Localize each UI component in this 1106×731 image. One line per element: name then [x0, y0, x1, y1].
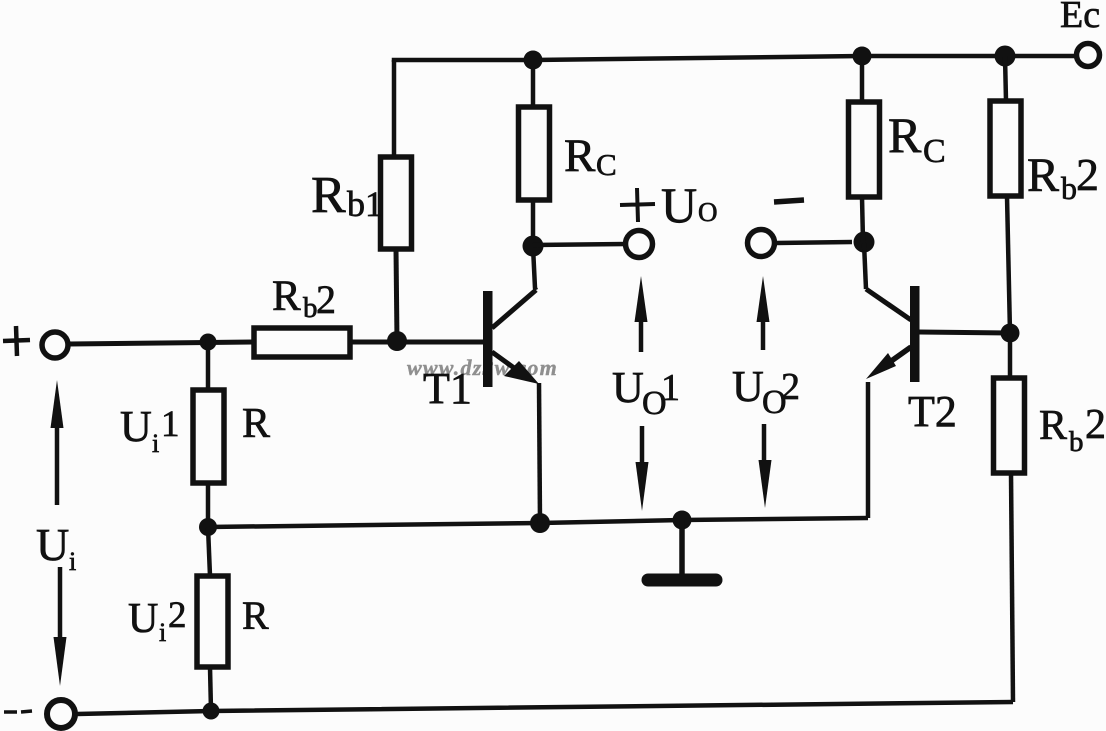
wire R lower bottom lead — [210, 667, 211, 711]
wire R_b2 to T1 base — [350, 340, 484, 345]
label plus Uo — [620, 188, 655, 222]
svg-text:2: 2 — [781, 366, 800, 408]
svg-text:C: C — [923, 133, 946, 170]
node input junction — [200, 334, 217, 351]
resistor R_C right — [849, 102, 880, 197]
input terminal plus — [42, 332, 68, 358]
resistor R upper — [193, 390, 224, 483]
wire R_b2 right-top bottom lead — [1007, 196, 1010, 333]
node bottom rail junction — [203, 703, 220, 720]
arrow Uo1 up — [639, 315, 644, 352]
svg-text:C: C — [596, 147, 617, 182]
wire T2 base — [919, 332, 1010, 333]
transistor T2 — [910, 286, 920, 382]
svg-text:i: i — [159, 618, 166, 647]
arrow Ui up — [55, 425, 60, 505]
node base T1 junction — [387, 331, 407, 351]
wire to output plus terminal — [533, 244, 626, 245]
wire R_C left top lead — [531, 60, 536, 107]
wire R_b2 right-top top lead — [1005, 56, 1006, 101]
arrow Uo2 up — [761, 315, 766, 350]
svg-text:2: 2 — [168, 595, 187, 636]
svg-text:2: 2 — [1076, 149, 1099, 200]
input minus dashes — [4, 711, 32, 712]
wire R upper bottom lead — [206, 483, 211, 527]
output terminal plus Uo — [626, 231, 653, 258]
svg-text:i: i — [152, 429, 159, 458]
node T2 base junction — [1001, 324, 1020, 343]
wire T2 emitter lead — [866, 382, 871, 518]
svg-text:b: b — [1061, 170, 1077, 206]
wire R_C right top lead — [860, 56, 865, 102]
wire input junction to R upper — [206, 342, 211, 390]
svg-text:R: R — [564, 130, 596, 182]
svg-text:U: U — [120, 402, 152, 451]
output terminal minus Uo — [748, 230, 775, 257]
wire T2 collector lead — [864, 243, 866, 289]
node top rail junction C — [995, 46, 1016, 67]
svg-text:U: U — [128, 596, 158, 642]
svg-text:Ec: Ec — [1060, 0, 1100, 36]
svg-text:R: R — [272, 273, 301, 320]
power terminal Ec — [1077, 44, 1100, 67]
ground — [679, 521, 685, 575]
resistor R_b2 right bottom — [994, 378, 1025, 473]
svg-text:b1: b1 — [347, 184, 383, 224]
svg-text:U: U — [36, 519, 69, 570]
node collector T2 junction — [854, 232, 875, 253]
label minus output — [774, 200, 804, 202]
wire emitter bus — [208, 518, 868, 527]
svg-text:R: R — [888, 107, 922, 163]
wire top supply rail — [394, 56, 1077, 62]
resistor R_b2 right top — [990, 101, 1021, 196]
svg-text:T1: T1 — [423, 364, 472, 413]
svg-text:U: U — [612, 363, 644, 412]
svg-text:O: O — [698, 197, 718, 227]
wire R lower top lead — [208, 527, 210, 576]
wire R_b2 right-bottom top lead — [1008, 333, 1013, 378]
wire R_b1 bottom lead — [396, 249, 397, 341]
node top rail junction B — [853, 47, 872, 66]
node collector T1 junction — [523, 236, 544, 257]
svg-text:R: R — [1039, 403, 1067, 449]
svg-text:2: 2 — [316, 277, 336, 322]
node top rail junction A — [524, 51, 543, 70]
svg-text:R: R — [1027, 149, 1059, 202]
node ground junction — [673, 511, 692, 530]
arrow Uo1 down — [640, 426, 645, 468]
input plus sign — [3, 326, 30, 356]
arrow Ui down — [58, 567, 63, 640]
svg-text:1: 1 — [161, 404, 180, 445]
wire input to R_b2 — [69, 342, 253, 344]
svg-text:R: R — [311, 167, 346, 224]
wire minus terminal to T2 collector — [776, 242, 852, 243]
svg-text:U: U — [661, 177, 697, 233]
resistor R_b1 — [381, 157, 412, 249]
resistor R_C left — [519, 107, 550, 200]
wire T1 emitter lead — [539, 383, 540, 523]
svg-text:b: b — [1069, 426, 1084, 458]
svg-text:i: i — [69, 547, 76, 576]
svg-text:1: 1 — [661, 367, 680, 409]
node emitter T1 junction — [530, 513, 550, 533]
arrow Uo2 down — [762, 424, 767, 465]
transistor T1 — [483, 291, 493, 387]
wire T1 collector lead — [533, 247, 536, 290]
svg-text:T2: T2 — [908, 387, 957, 436]
wire R_C left bottom lead — [531, 200, 536, 246]
wire R_C right bottom lead — [862, 197, 863, 242]
resistor R lower — [197, 576, 228, 667]
svg-text:R: R — [242, 593, 269, 638]
node divider junction — [199, 518, 217, 536]
input terminal minus — [47, 700, 75, 728]
wire R_b1 top lead — [392, 60, 397, 157]
resistor R_b2 left — [254, 328, 350, 357]
wire bottom rail riser — [1011, 473, 1013, 702]
svg-text:U: U — [732, 362, 764, 411]
svg-text:R: R — [242, 401, 270, 447]
svg-text:2: 2 — [1085, 402, 1106, 448]
wire bottom rail — [77, 702, 1013, 714]
